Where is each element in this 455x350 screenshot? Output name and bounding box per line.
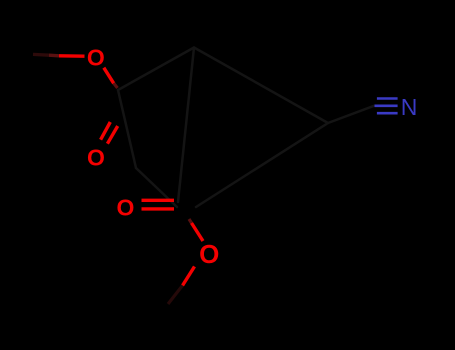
svg-text:N: N xyxy=(401,94,418,120)
bond O1-C dim tip xyxy=(114,83,118,88)
nitrile triple bond top line xyxy=(377,97,398,100)
wire C5-C6 up-right from lower ester xyxy=(196,123,328,207)
ester 1: methyl-O bond red half xyxy=(59,54,85,58)
methyl bond 2 red half xyxy=(183,267,195,286)
nitrile triple bond bottom line xyxy=(377,112,398,115)
wire C1-C6 long down-right xyxy=(194,48,328,124)
svg-text:O: O xyxy=(117,194,135,220)
wire bridge C1-C5 vertical xyxy=(178,48,194,203)
svg-text:O: O xyxy=(87,144,105,170)
wire C6 to nitrile C xyxy=(328,106,374,123)
bond O1 to carbonyl C xyxy=(104,68,114,84)
C=O double bond stroke b xyxy=(107,126,117,144)
svg-text:O: O xyxy=(199,239,219,269)
svg-text:O: O xyxy=(87,45,105,71)
C=O double bond stroke a xyxy=(101,122,111,140)
methyl bond 2 dim half xyxy=(168,286,183,305)
ester 1: methyl bond dim half xyxy=(33,53,49,57)
wire C2-C1 up-right xyxy=(118,48,194,91)
wire C3 to carbonyl C2' xyxy=(136,168,177,207)
C=O double bond line b (ester 2) xyxy=(142,207,175,210)
bond C2' to O4 dim tip xyxy=(189,219,192,223)
nitrile triple bond middle line xyxy=(375,105,398,108)
bicyclic carbon cage xyxy=(118,48,374,208)
wire C2-C3 left edge xyxy=(118,90,136,168)
C=O double bond line a (ester 2) xyxy=(142,199,175,202)
bond C2' to O4 red xyxy=(192,223,204,241)
